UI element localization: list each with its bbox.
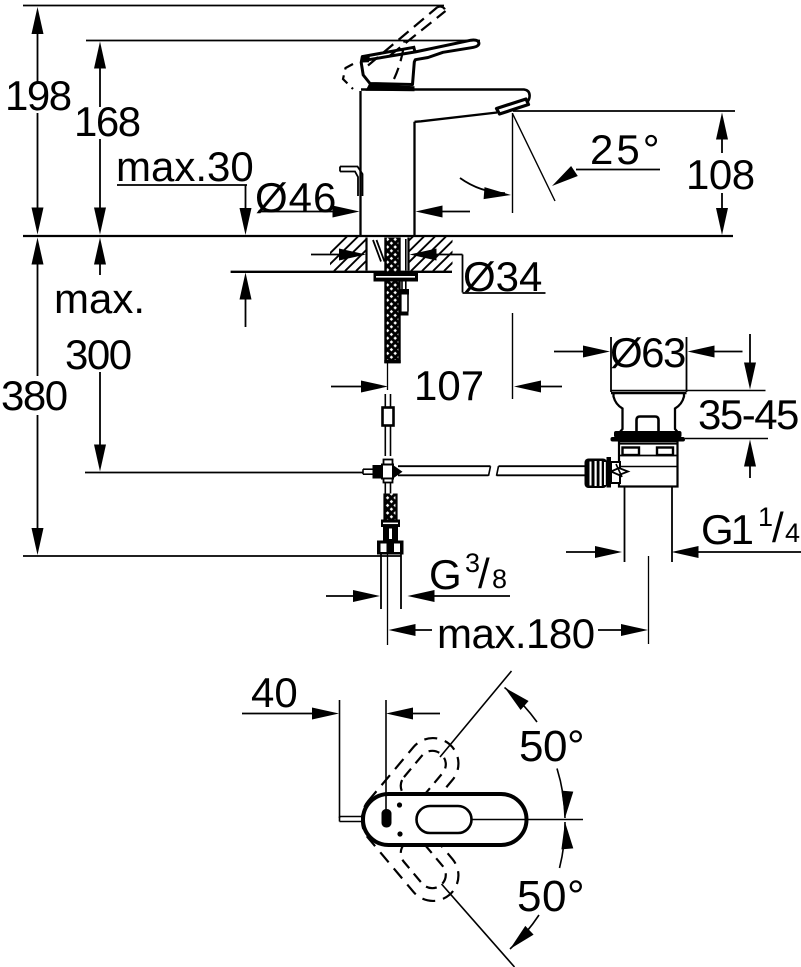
dimension O63 right arrow (688, 346, 715, 358)
faucet body right edge (413, 122, 415, 235)
dimension O34 left arrow (311, 254, 341, 256)
svg-text:50°: 50° (519, 722, 584, 771)
counter underside line (231, 271, 452, 273)
spout axis vertical line lower (512, 313, 514, 399)
extension line top (198 ref, lever raised tip level) (23, 5, 444, 7)
40 left extension line (339, 700, 341, 818)
max300 reference line (85, 472, 363, 474)
lever top back edge (362, 47, 415, 56)
linkage rod coupler (383, 408, 394, 426)
dimension 380 lower segment (37, 415, 39, 529)
svg-text:25°: 25° (590, 126, 663, 173)
pop-up rod below flange (401, 282, 403, 290)
dimension max180 right arrow (598, 629, 622, 631)
svg-text:1: 1 (758, 502, 773, 532)
clamp bracket plate (607, 457, 612, 488)
svg-text:35-45: 35-45 (698, 391, 798, 438)
lower 50deg ray (442, 884, 515, 967)
horizontal linkage left segment (398, 465, 491, 467)
lever raised dashed lower edge (390, 11, 446, 56)
O34 label underline (463, 292, 546, 294)
hose nut top (381, 520, 400, 528)
dimension 40 right arrow (386, 708, 413, 720)
screw dot lower (397, 831, 402, 836)
waste plug stem (637, 417, 659, 432)
waste plug left taper (614, 394, 623, 433)
upper 50deg arc (505, 688, 538, 723)
svg-text:8: 8 (492, 564, 507, 594)
dimension 107 right arrow (514, 381, 541, 393)
counter hatching (312, 237, 479, 272)
dimension 380 upper segment (32, 238, 44, 265)
svg-text:107: 107 (414, 362, 484, 409)
lever raised dashed mid arc (394, 41, 405, 80)
pop-up rod lower section (400, 295, 402, 312)
svg-text:/: / (478, 550, 490, 597)
35-45 lower reference line (685, 438, 768, 440)
O46 left-pointing arrow at body right edge (416, 206, 443, 218)
dimension 35-45 lower (744, 440, 756, 467)
faucet axis centerline (387, 363, 389, 390)
hose threaded section (385, 494, 397, 520)
pull rod tab top view (340, 816, 364, 818)
dimension max300 upper segment (94, 238, 106, 265)
35-45 upper reference line (687, 390, 766, 392)
linkage rod upper pair (384, 394, 386, 408)
max.30 leader underline (117, 184, 247, 186)
threaded shank body (385, 238, 401, 364)
linkage rod lower pair (384, 426, 386, 457)
upper 50deg ray (440, 671, 512, 757)
lever base black bar (366, 84, 415, 91)
spout underside line (415, 113, 498, 122)
pop-up rod end cap (401, 312, 409, 316)
handle swung down dashed outline (352, 785, 469, 911)
lever raised dashed pivot corner (343, 64, 353, 89)
waste body window left (623, 448, 640, 456)
tee top box (384, 460, 393, 465)
svg-text:40: 40 (251, 669, 298, 716)
dimension 40 line (242, 713, 312, 715)
waste flange lower (611, 437, 686, 442)
svg-text:G: G (429, 551, 462, 598)
svg-text:max.: max. (54, 275, 145, 322)
svg-text:4: 4 (785, 518, 800, 548)
tee left fitting (363, 468, 373, 470)
dimension 168 line upper segment (99, 55, 101, 107)
waste plug cap underedge (611, 392, 687, 395)
tee right black arrow (393, 465, 403, 479)
rod below tee (384, 483, 386, 494)
max.30 arrow up to counter underside (240, 273, 252, 300)
lever top view oval (417, 806, 472, 833)
svg-text:Ø63: Ø63 (610, 329, 685, 376)
svg-text:G1: G1 (701, 506, 753, 553)
25 deg slant line (513, 114, 556, 202)
threaded shank bottom cap (384, 360, 400, 363)
dimension 198 line upper segment (37, 20, 39, 82)
dimension G3/8 left arrow (326, 595, 354, 597)
spout aerator (497, 99, 529, 114)
linkage clamp knob (585, 459, 608, 489)
waste plug top line (611, 390, 687, 392)
tee left black block (373, 465, 383, 479)
O46 leader line with right-pointing arrow (258, 211, 335, 213)
mounting wedge in hole (373, 240, 381, 262)
lever raised dashed upper edge (368, 8, 437, 66)
waste plug right taper (675, 394, 684, 433)
waste flange upper (614, 431, 682, 438)
waste body top line (619, 443, 678, 445)
O63 right extension line (686, 337, 688, 392)
svg-text:50°: 50° (517, 872, 585, 921)
dimension G1-1/4 left arrow (566, 551, 596, 553)
dimension 168 line lower segment (99, 139, 101, 221)
spout axis vertical line upper (512, 113, 514, 213)
dimension max180 left arrow (389, 624, 416, 636)
25 deg leader with arrow (576, 169, 660, 171)
counter top line (23, 235, 733, 237)
svg-text:380: 380 (1, 372, 67, 419)
flange under counter (374, 272, 419, 282)
lever left black blob (362, 55, 370, 63)
dimension O63 left arrow (554, 351, 584, 353)
svg-text:108: 108 (686, 151, 755, 198)
dimension O34 right arrow (410, 249, 437, 261)
O34 leader vertical (462, 255, 464, 293)
svg-text:max.180: max.180 (437, 610, 595, 657)
dimension G1-1/4 right arrow (672, 546, 699, 558)
clamp pointer (611, 468, 628, 475)
25 deg swing arc with arrow (460, 178, 505, 193)
svg-text:/: / (772, 504, 784, 551)
waste body lower line (611, 466, 678, 468)
lever handle solid (361, 40, 479, 84)
faucet body left edge (359, 91, 361, 235)
handle swung up dashed outline (352, 728, 469, 854)
svg-text:168: 168 (74, 98, 140, 145)
capsule centerline right (472, 819, 583, 821)
waste body window right (657, 448, 673, 456)
lower 50deg arc (560, 822, 566, 868)
dimension 35-45 upper (749, 334, 751, 363)
threaded shank left edge (384, 238, 386, 364)
dimension 107 left arrow (331, 386, 361, 388)
max.30 arrow down to counter top (245, 185, 247, 210)
108 top reference line (513, 110, 735, 112)
pull rod hole black pill (382, 809, 392, 828)
40 right extension line inside capsule (385, 795, 387, 810)
faucet base capsule top view (363, 794, 527, 845)
lever raised dashed tip arc (437, 7, 446, 11)
screw dot upper (397, 802, 402, 807)
waste body mid line (619, 455, 678, 457)
O63 left extension line (610, 337, 612, 392)
svg-text:300: 300 (65, 331, 131, 378)
counter hole left edge (365, 238, 367, 271)
svg-text:Ø46: Ø46 (255, 174, 337, 221)
380 bottom reference line (23, 555, 401, 557)
hose nut middle (383, 527, 398, 541)
dimension 108 lower segment (721, 193, 723, 208)
waste axis centerline (648, 556, 650, 644)
dimension max300 lower segment (99, 372, 101, 445)
svg-text:max.30: max.30 (116, 143, 254, 190)
pop-up rod coupler (400, 289, 410, 295)
tee bottom box (384, 479, 393, 483)
hose nut bottom wide (377, 541, 404, 555)
pop-up rod vertical line in hole (405, 239, 407, 271)
hose end lines (380, 555, 382, 610)
counter hole right edge (407, 238, 409, 271)
pop-up pull rod knob (340, 167, 363, 197)
horizontal linkage right segment (499, 465, 586, 467)
waste body (619, 442, 678, 487)
tee center box (382, 465, 393, 479)
svg-text:198: 198 (5, 72, 71, 119)
faucet axis centerline lower (387, 555, 389, 646)
dimension 198 line lower segment (37, 113, 39, 221)
waste tailpipe (624, 487, 626, 563)
dimension 108 upper segment (716, 113, 728, 140)
faucet body top and spout top edge (361, 90, 530, 102)
clamp bracket box (611, 462, 620, 483)
40 right extension line (385, 700, 387, 810)
extension line (168 ref, lever tip level) (86, 40, 480, 42)
dimension G3/8 right arrow (408, 590, 435, 602)
threaded shank right edge (398, 238, 400, 364)
